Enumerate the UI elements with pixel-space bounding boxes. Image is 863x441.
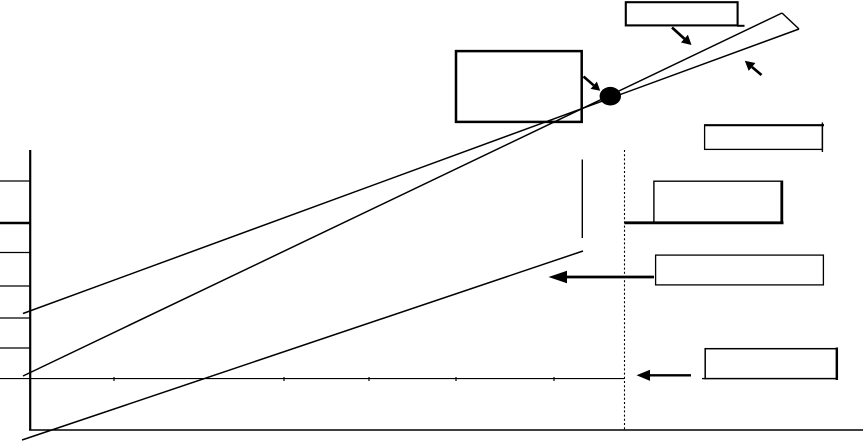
price line tick 4 xyxy=(455,377,457,381)
arrow from B1 head xyxy=(681,35,692,45)
box B3 thick top edge xyxy=(704,124,824,126)
tick y6 xyxy=(0,347,30,349)
price line tick 3 xyxy=(368,377,370,381)
diagonal line C xyxy=(22,251,583,440)
diagonal line B xyxy=(23,13,782,376)
tick y1 xyxy=(0,180,30,182)
box B4 thick right edge xyxy=(780,181,783,223)
arrow from B2 shaft xyxy=(584,77,594,86)
price line tick 2 xyxy=(283,377,285,381)
price line tick 1 xyxy=(113,377,115,381)
box B6 thick right edge xyxy=(836,348,838,381)
box B1 bottom extension xyxy=(737,25,745,27)
long left arrow shaft xyxy=(566,276,654,279)
dotted vertical line xyxy=(624,150,626,430)
box B5 xyxy=(656,255,824,285)
x-axis xyxy=(29,429,863,431)
arrow up-left at wedge head xyxy=(745,61,756,71)
short vertical segment xyxy=(581,160,583,239)
box B3 xyxy=(705,125,823,149)
equilibrium dot xyxy=(600,87,621,106)
tick y3 xyxy=(0,252,30,254)
diagonal line A xyxy=(23,29,799,314)
arrow from B1 shaft xyxy=(672,28,684,39)
box B6 xyxy=(705,349,837,379)
box B3 right edge overhang xyxy=(821,123,823,153)
box B6 bottom extension xyxy=(702,378,706,380)
tick y4 xyxy=(0,285,30,287)
thick horizontal line under box B4 xyxy=(625,221,784,224)
long left arrow head xyxy=(549,271,568,284)
tick y5 xyxy=(0,317,30,319)
tick y2 bold xyxy=(0,222,30,224)
short left arrow shaft xyxy=(649,374,691,376)
box B2 xyxy=(456,51,582,122)
box B4 sides (left, top, thick right) xyxy=(654,181,782,222)
wedge end connector xyxy=(782,13,799,29)
price line tick 5 xyxy=(553,377,555,381)
short left arrow head xyxy=(637,370,651,381)
box B1 xyxy=(626,2,738,25)
arrow up-left at wedge shaft xyxy=(752,67,762,75)
y-axis xyxy=(29,150,31,430)
horizontal price line xyxy=(0,378,625,380)
arrow from B2 head xyxy=(591,82,601,91)
